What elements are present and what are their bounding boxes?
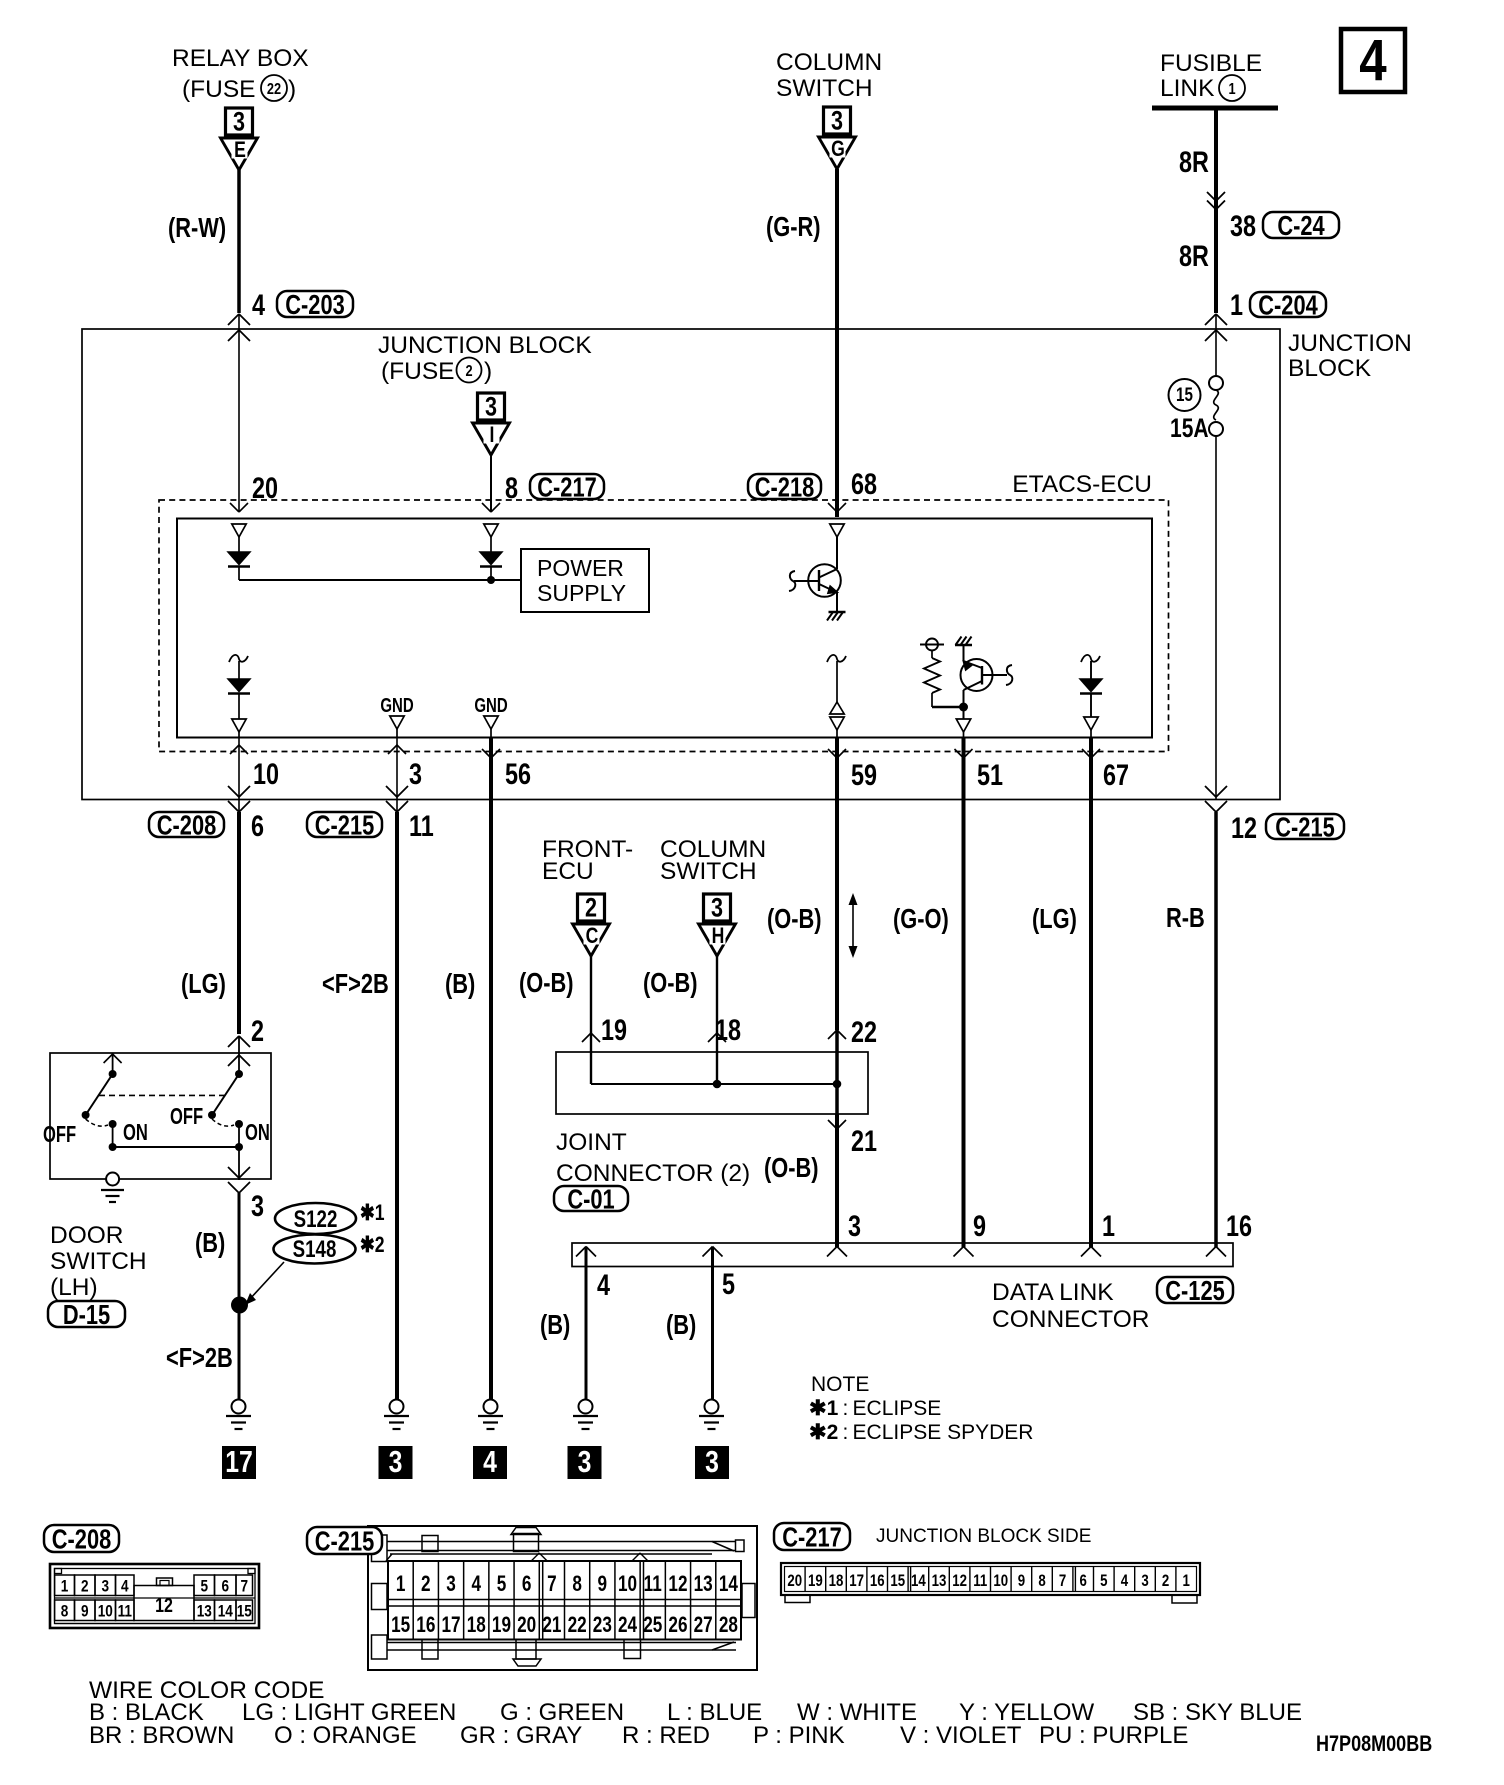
svg-text:13: 13: [694, 1572, 713, 1597]
svg-text:3: 3: [848, 1209, 861, 1242]
svg-text:12: 12: [1231, 811, 1257, 844]
svg-text:67: 67: [1103, 758, 1129, 791]
svg-text:(O-B): (O-B): [767, 903, 822, 934]
svg-text:C-01: C-01: [567, 1184, 614, 1215]
svg-text:SWITCH: SWITCH: [660, 858, 757, 885]
svg-text:C-208: C-208: [52, 1524, 111, 1555]
svg-text:9: 9: [1018, 1572, 1025, 1591]
svg-text:6: 6: [251, 809, 264, 842]
svg-text:22: 22: [267, 81, 281, 99]
svg-text:3: 3: [711, 893, 723, 923]
svg-text:14: 14: [218, 1602, 234, 1621]
svg-text:6: 6: [522, 1572, 532, 1597]
svg-text:(O-B): (O-B): [764, 1152, 819, 1183]
svg-text:5: 5: [722, 1267, 735, 1300]
svg-text:2: 2: [1162, 1572, 1169, 1591]
svg-text:DATA LINK: DATA LINK: [992, 1279, 1114, 1306]
svg-text:24: 24: [618, 1613, 637, 1638]
svg-text:PU : PURPLE: PU : PURPLE: [1039, 1722, 1188, 1749]
svg-text:11: 11: [118, 1602, 133, 1621]
svg-text:2: 2: [465, 363, 472, 381]
svg-text:12: 12: [952, 1572, 967, 1591]
svg-text:3: 3: [389, 1444, 403, 1478]
svg-text:2: 2: [421, 1572, 431, 1597]
svg-text:4: 4: [252, 288, 265, 321]
svg-text:4: 4: [483, 1444, 497, 1478]
svg-text:8R: 8R: [1179, 145, 1209, 178]
svg-text:19: 19: [601, 1013, 627, 1046]
svg-text:8: 8: [505, 471, 518, 504]
svg-text:<F>2B: <F>2B: [166, 1342, 233, 1373]
svg-text:NOTE: NOTE: [811, 1373, 869, 1396]
svg-text:8: 8: [1038, 1572, 1045, 1591]
svg-text:16: 16: [416, 1613, 435, 1638]
svg-text:(B): (B): [445, 968, 475, 999]
svg-text:S122: S122: [294, 1206, 338, 1233]
svg-text:16: 16: [870, 1572, 885, 1591]
svg-text:(B): (B): [666, 1309, 696, 1340]
svg-text:3: 3: [831, 106, 843, 136]
svg-text:25: 25: [643, 1613, 662, 1638]
svg-text:3: 3: [1141, 1572, 1148, 1591]
svg-text:1: 1: [1228, 81, 1235, 99]
svg-text:(G-O): (G-O): [893, 903, 949, 934]
svg-text:POWER: POWER: [537, 555, 624, 581]
svg-text:(O-B): (O-B): [519, 967, 574, 998]
svg-text:OFF: OFF: [170, 1104, 203, 1129]
svg-text:11: 11: [409, 809, 434, 842]
svg-text:✱2 : ECLIPSE SPYDER: ✱2 : ECLIPSE SPYDER: [809, 1421, 1033, 1444]
svg-text:(G-R): (G-R): [766, 211, 821, 242]
svg-text:18: 18: [467, 1613, 486, 1638]
svg-text:BR : BROWN: BR : BROWN: [89, 1722, 234, 1749]
svg-text:3: 3: [233, 107, 245, 137]
svg-text:7: 7: [1059, 1572, 1066, 1591]
svg-text:3: 3: [705, 1444, 719, 1478]
svg-text:18: 18: [715, 1013, 741, 1046]
svg-text:1: 1: [1102, 1209, 1115, 1242]
svg-text:C-215: C-215: [315, 1526, 374, 1557]
svg-text:9: 9: [81, 1602, 89, 1621]
svg-text:51: 51: [977, 758, 1003, 791]
svg-text:C-203: C-203: [285, 289, 344, 320]
svg-text:20: 20: [252, 471, 278, 504]
svg-text:18: 18: [829, 1572, 844, 1591]
svg-text:2: 2: [251, 1014, 264, 1047]
svg-text:1: 1: [61, 1577, 69, 1596]
svg-text:ETACS-ECU: ETACS-ECU: [1012, 471, 1152, 498]
svg-text:LINK: LINK: [1160, 75, 1215, 102]
svg-text:6: 6: [1080, 1572, 1087, 1591]
svg-text:6: 6: [221, 1577, 229, 1596]
svg-text:V : VIOLET: V : VIOLET: [900, 1722, 1022, 1749]
svg-text:COLUMN: COLUMN: [776, 49, 882, 76]
svg-text:21: 21: [542, 1613, 561, 1638]
svg-text:17: 17: [225, 1444, 253, 1478]
svg-text:JUNCTION: JUNCTION: [1288, 330, 1412, 357]
svg-text:C-217: C-217: [537, 472, 596, 503]
svg-text:H7P08M00BB: H7P08M00BB: [1316, 1732, 1432, 1756]
svg-text:C-215: C-215: [315, 810, 374, 841]
svg-text:H: H: [712, 924, 725, 948]
svg-text:59: 59: [851, 758, 877, 791]
svg-text:3: 3: [485, 392, 497, 422]
svg-text:21: 21: [851, 1124, 877, 1157]
svg-text:✱1: ✱1: [360, 1201, 385, 1225]
svg-text:E: E: [234, 138, 246, 162]
svg-text:15: 15: [1176, 383, 1193, 405]
svg-text:(LG): (LG): [181, 968, 226, 999]
svg-text:28: 28: [719, 1613, 738, 1638]
svg-text:R : RED: R : RED: [622, 1722, 710, 1749]
svg-text:12: 12: [668, 1572, 687, 1597]
svg-text:23: 23: [593, 1613, 612, 1638]
svg-text:10: 10: [618, 1572, 637, 1597]
svg-text:15: 15: [890, 1572, 905, 1591]
svg-text:C-208: C-208: [157, 810, 216, 841]
svg-text:4: 4: [1121, 1572, 1129, 1591]
svg-text:2: 2: [81, 1577, 89, 1596]
svg-text:5: 5: [1100, 1572, 1108, 1591]
svg-text:5: 5: [497, 1572, 507, 1597]
svg-text:13: 13: [932, 1572, 947, 1591]
svg-text:7: 7: [240, 1577, 248, 1596]
svg-text:68: 68: [851, 467, 877, 500]
svg-text:38: 38: [1230, 209, 1256, 242]
svg-text:R-B: R-B: [1166, 902, 1205, 933]
svg-text:P : PINK: P : PINK: [753, 1722, 845, 1749]
svg-text:DOOR: DOOR: [50, 1222, 124, 1249]
svg-text:✱1 : ECLIPSE: ✱1 : ECLIPSE: [809, 1397, 941, 1420]
svg-text:3: 3: [446, 1572, 456, 1597]
svg-text:3: 3: [409, 757, 422, 790]
svg-text:11: 11: [644, 1572, 662, 1597]
svg-text:OFF: OFF: [43, 1122, 76, 1147]
svg-text:(B): (B): [540, 1309, 570, 1340]
svg-text:(O-B): (O-B): [643, 967, 698, 998]
svg-text:3: 3: [578, 1444, 592, 1478]
svg-text:I: I: [490, 423, 495, 447]
svg-text:20: 20: [787, 1572, 802, 1591]
svg-text:13: 13: [197, 1602, 212, 1621]
svg-text:3: 3: [251, 1189, 264, 1222]
svg-text:17: 17: [441, 1613, 460, 1638]
svg-text:2: 2: [585, 893, 597, 923]
svg-text:3: 3: [101, 1577, 109, 1596]
svg-text:14: 14: [911, 1572, 926, 1591]
svg-text:C-215: C-215: [1275, 812, 1334, 843]
svg-text:19: 19: [808, 1572, 823, 1591]
svg-text:4: 4: [121, 1577, 129, 1596]
svg-text:16: 16: [1226, 1209, 1252, 1242]
svg-text:SWITCH: SWITCH: [50, 1248, 147, 1275]
svg-text:SWITCH: SWITCH: [776, 75, 873, 102]
svg-text:(FUSE: (FUSE: [381, 358, 455, 385]
svg-text:1: 1: [1230, 288, 1243, 321]
svg-text:15: 15: [237, 1602, 253, 1621]
svg-text:<F>2B: <F>2B: [322, 968, 389, 999]
svg-text:8: 8: [61, 1602, 69, 1621]
svg-text:S148: S148: [293, 1236, 337, 1263]
svg-text:JUNCTION BLOCK: JUNCTION BLOCK: [378, 332, 592, 359]
svg-text:20: 20: [517, 1613, 536, 1638]
svg-text:27: 27: [694, 1613, 713, 1638]
svg-text:1: 1: [396, 1572, 406, 1597]
svg-text:22: 22: [568, 1613, 587, 1638]
svg-text:ON: ON: [245, 1120, 270, 1145]
svg-text:56: 56: [505, 757, 531, 790]
svg-text:FUSIBLE: FUSIBLE: [1160, 50, 1262, 77]
svg-text:RELAY BOX: RELAY BOX: [172, 45, 309, 72]
svg-text:O : ORANGE: O : ORANGE: [274, 1722, 417, 1749]
svg-text:C-125: C-125: [1165, 1275, 1224, 1306]
svg-text:4: 4: [597, 1268, 610, 1301]
svg-text:4: 4: [471, 1572, 481, 1597]
svg-text:G: G: [831, 137, 845, 161]
svg-text:11: 11: [973, 1572, 987, 1591]
svg-text:C-218: C-218: [755, 472, 814, 503]
svg-text:C: C: [586, 924, 599, 948]
svg-text:9: 9: [598, 1572, 608, 1597]
svg-text:(B): (B): [195, 1227, 225, 1258]
svg-text:(FUSE: (FUSE: [182, 76, 256, 103]
svg-text:22: 22: [851, 1015, 877, 1048]
svg-text:SUPPLY: SUPPLY: [537, 580, 626, 606]
svg-text:C-204: C-204: [1258, 290, 1317, 321]
svg-text:17: 17: [849, 1572, 864, 1591]
svg-text:BLOCK: BLOCK: [1288, 355, 1372, 382]
svg-text:GR : GRAY: GR : GRAY: [460, 1722, 582, 1749]
svg-text:9: 9: [973, 1209, 986, 1242]
svg-text:15A: 15A: [1170, 414, 1209, 444]
svg-text:): ): [288, 76, 296, 103]
svg-text:D-15: D-15: [63, 1299, 110, 1330]
svg-text:ON: ON: [123, 1120, 148, 1145]
svg-text:JUNCTION BLOCK SIDE: JUNCTION BLOCK SIDE: [876, 1526, 1091, 1547]
svg-text:7: 7: [547, 1572, 557, 1597]
svg-text:GND: GND: [474, 694, 508, 717]
svg-text:✱2: ✱2: [360, 1233, 385, 1257]
svg-text:JOINT: JOINT: [556, 1129, 627, 1156]
svg-text:(LG): (LG): [1032, 903, 1077, 934]
svg-text:C-24: C-24: [1277, 210, 1324, 241]
svg-text:C-217: C-217: [782, 1522, 841, 1553]
svg-text:GND: GND: [380, 694, 414, 717]
svg-text:CONNECTOR: CONNECTOR: [992, 1306, 1149, 1333]
svg-text:26: 26: [668, 1613, 687, 1638]
svg-text:8: 8: [572, 1572, 582, 1597]
svg-text:ECU: ECU: [542, 858, 594, 885]
svg-text:14: 14: [719, 1572, 738, 1597]
svg-text:5: 5: [200, 1577, 208, 1596]
svg-text:): ): [484, 358, 492, 385]
svg-text:15: 15: [391, 1613, 410, 1638]
svg-text:(R-W): (R-W): [168, 212, 226, 243]
svg-text:1: 1: [1183, 1572, 1191, 1591]
svg-text:10: 10: [98, 1602, 113, 1621]
svg-text:10: 10: [993, 1572, 1008, 1591]
svg-text:19: 19: [492, 1613, 511, 1638]
svg-text:8R: 8R: [1179, 239, 1209, 272]
svg-text:4: 4: [1359, 28, 1386, 93]
svg-text:(LH): (LH): [50, 1274, 98, 1301]
svg-text:10: 10: [253, 757, 279, 790]
